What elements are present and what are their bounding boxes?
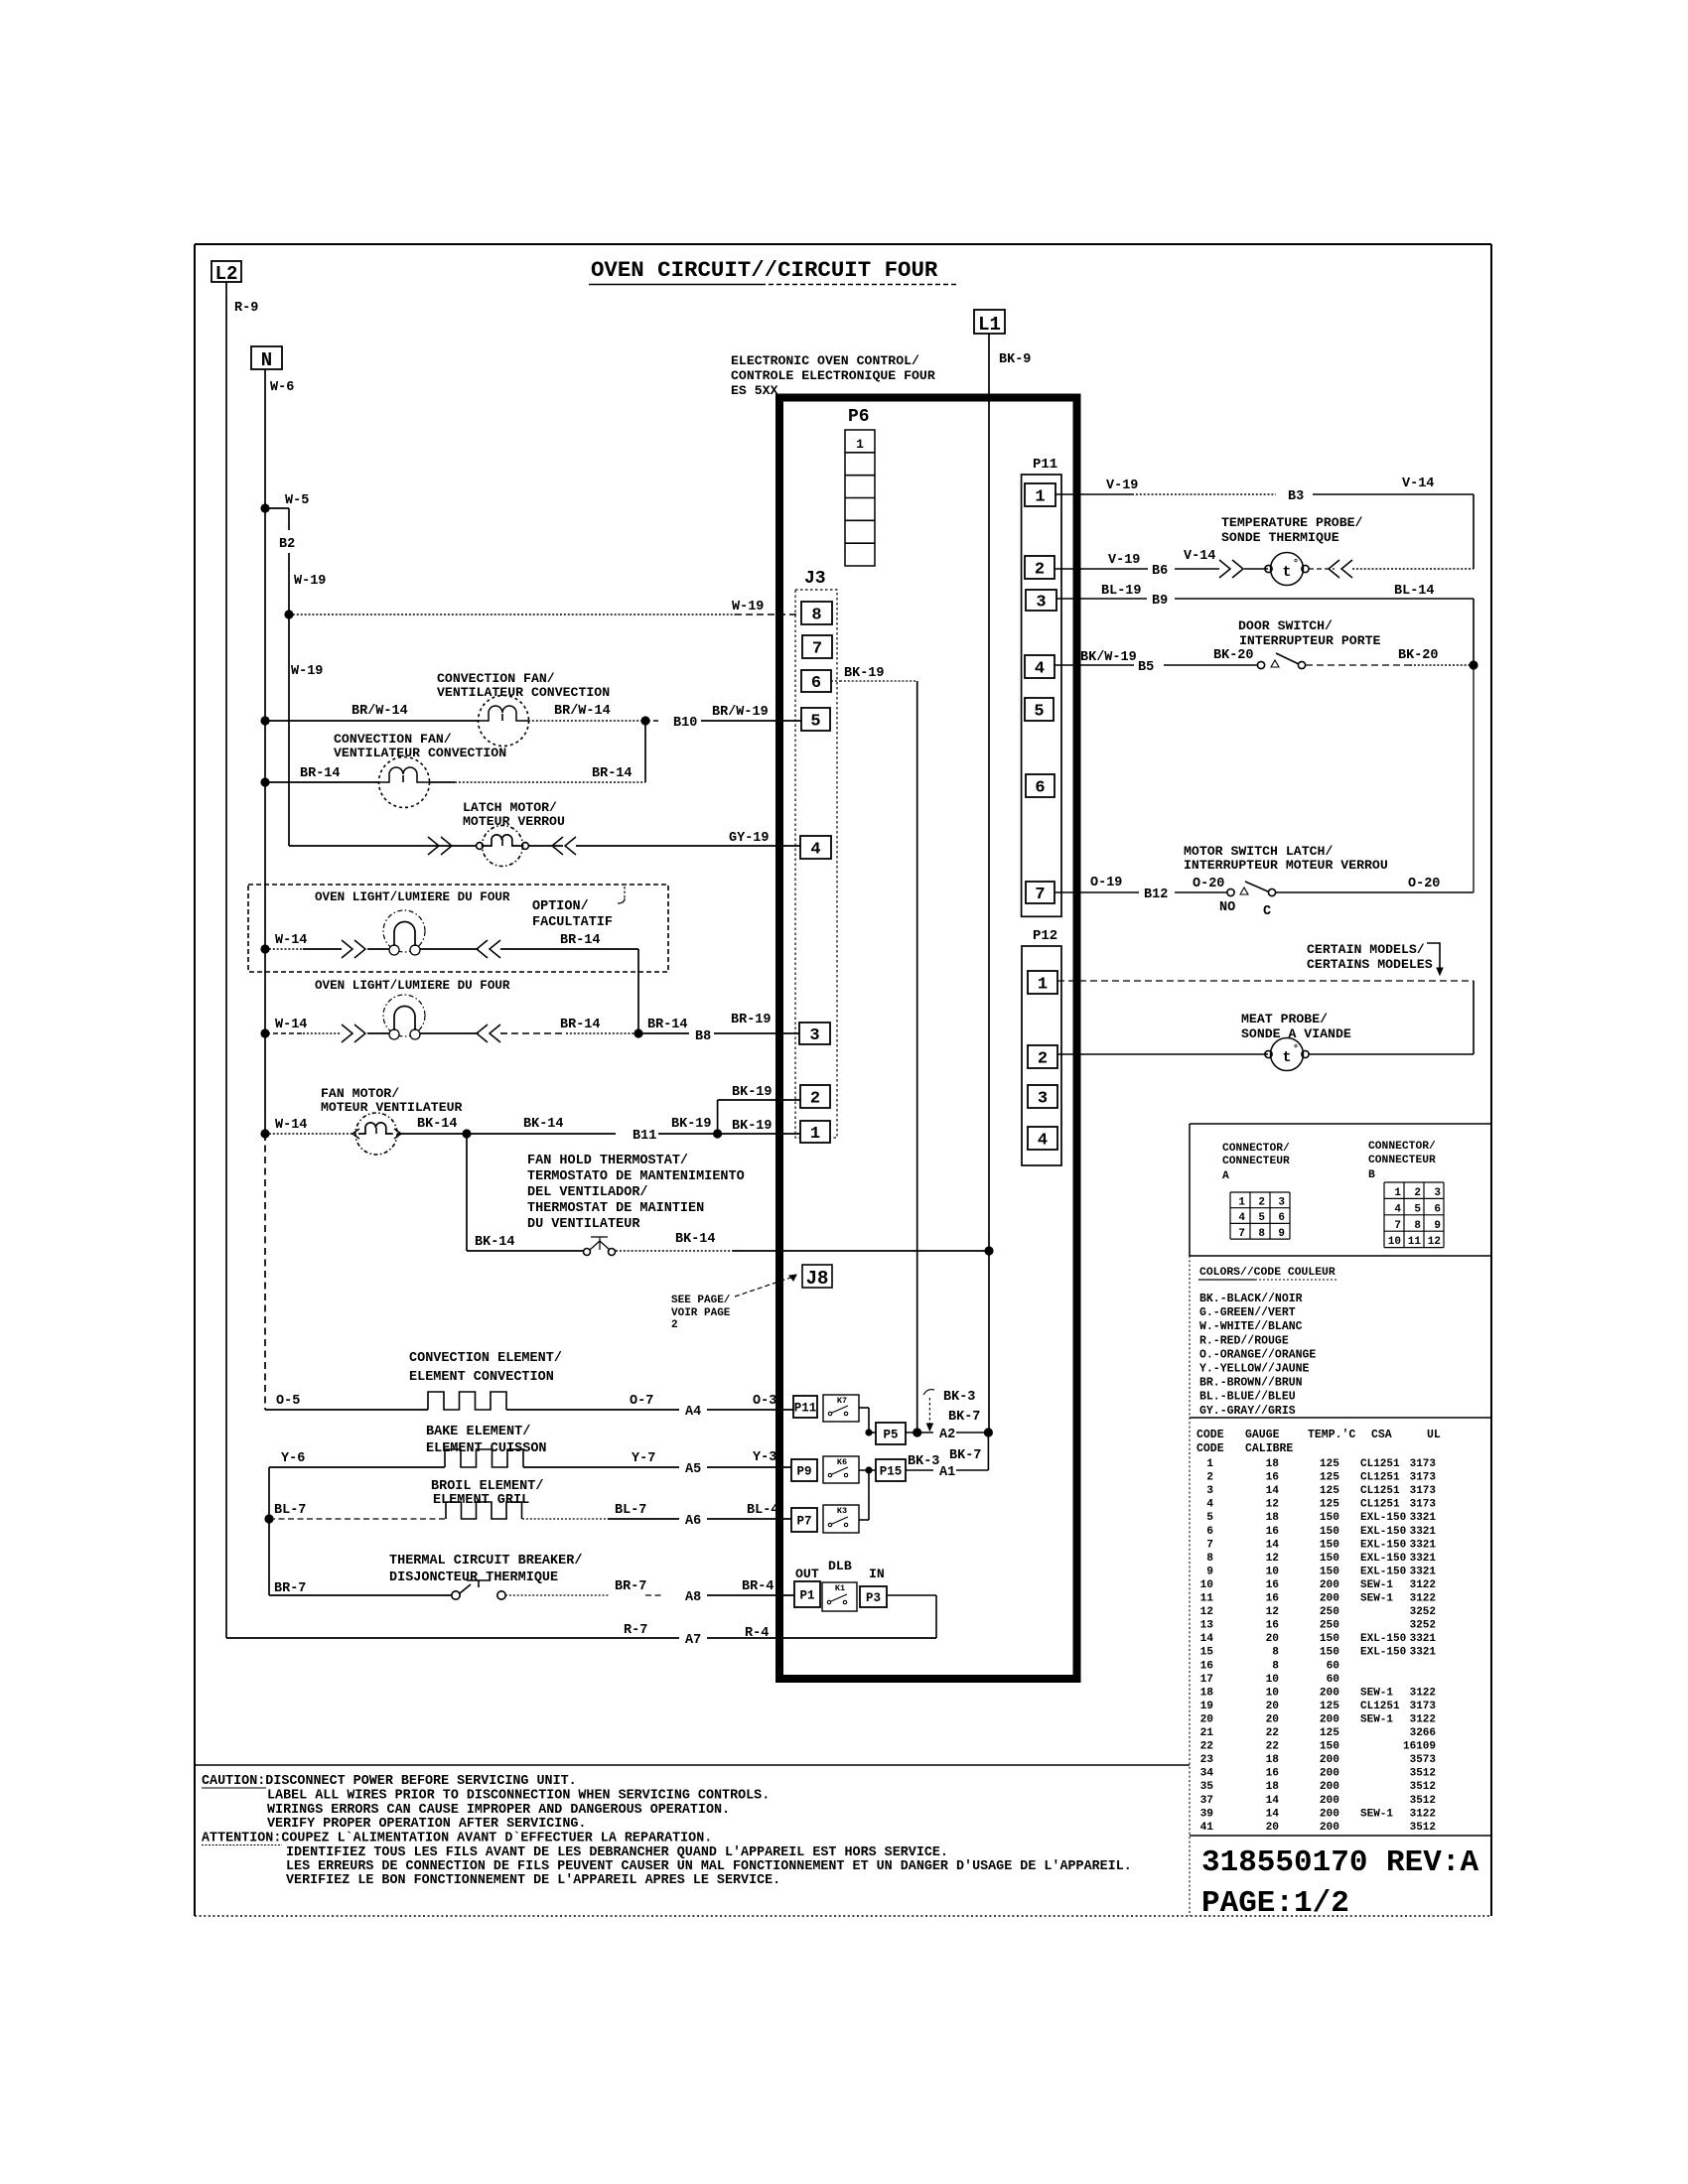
svg-text:A2: A2: [939, 1428, 955, 1442]
svg-text:R-9: R-9: [234, 301, 258, 316]
node P15 input junction: [865, 1466, 872, 1473]
svg-text:CODE: CODE: [1196, 1429, 1224, 1441]
svg-text:MEAT PROBE/: MEAT PROBE/: [1241, 1012, 1328, 1026]
svg-text:EXL-150: EXL-150: [1360, 1512, 1406, 1524]
probe temperature sensor: [1265, 565, 1272, 572]
svg-text:CALIBRE: CALIBRE: [1245, 1442, 1293, 1455]
wire P5 output to A2: [906, 1432, 933, 1433]
svg-text:L2: L2: [215, 263, 238, 285]
svg-text:EXL-150: EXL-150: [1360, 1647, 1406, 1659]
svg-text:Y-3: Y-3: [753, 1450, 776, 1465]
svg-text:250: 250: [1320, 1620, 1339, 1632]
connector chevrons latch left: [428, 837, 452, 855]
connector P11 pin 6: [1026, 774, 1055, 797]
svg-text:R-7: R-7: [624, 1623, 647, 1638]
wire broil row left: [269, 1518, 446, 1520]
wire BL-7 riser to BR-7: [268, 1519, 270, 1595]
svg-text:3: 3: [1278, 1197, 1285, 1209]
svg-text:OVEN LIGHT/LUMIERE DU FOUR: OVEN LIGHT/LUMIERE DU FOUR: [315, 890, 510, 904]
relay K7: [823, 1395, 859, 1422]
svg-text:°: °: [1293, 558, 1299, 570]
node P5 input junction: [865, 1429, 872, 1435]
wire conv fan 2 to B10 riser: [429, 781, 455, 783]
svg-text:125: 125: [1320, 1727, 1339, 1739]
svg-text:ELEMENT CONVECTION: ELEMENT CONVECTION: [409, 1370, 554, 1385]
title underline: [589, 284, 761, 286]
svg-text:MOTEUR VERROU: MOTEUR VERROU: [463, 814, 565, 829]
wire meat probe right: [1309, 1053, 1474, 1055]
svg-text:SEW-1: SEW-1: [1360, 1593, 1393, 1605]
svg-text:14: 14: [1266, 1795, 1280, 1807]
svg-text:P15: P15: [880, 1465, 903, 1479]
svg-text:BK-19: BK-19: [844, 666, 885, 681]
svg-text:K3: K3: [837, 1506, 847, 1516]
svg-text:BAKE ELEMENT/: BAKE ELEMENT/: [426, 1425, 530, 1439]
svg-text:1: 1: [810, 1125, 820, 1144]
wire L2 to A7 row: [226, 1637, 679, 1639]
wire P11 pin3 B9: [1056, 598, 1147, 600]
svg-text:16: 16: [1266, 1526, 1280, 1538]
svg-text:W-19: W-19: [294, 574, 326, 589]
svg-text:BR-19: BR-19: [731, 1013, 772, 1027]
wire element to A4: [506, 1409, 679, 1411]
connector P11 pin 4: [1025, 655, 1055, 678]
svg-text:DLB: DLB: [828, 1559, 852, 1573]
terminal P9: [791, 1459, 817, 1481]
svg-text:A8: A8: [685, 1590, 701, 1605]
svg-text:BK-9: BK-9: [999, 352, 1031, 367]
wire door switch to junction: [1306, 664, 1410, 666]
svg-text:7: 7: [1394, 1220, 1401, 1232]
svg-text:7: 7: [812, 640, 822, 659]
wire B10 to J3 pin 5: [701, 720, 801, 722]
svg-text:20: 20: [1266, 1713, 1280, 1725]
svg-text:3122: 3122: [1410, 1579, 1436, 1591]
svg-text:9: 9: [1278, 1228, 1285, 1240]
svg-text:3321: 3321: [1410, 1566, 1437, 1577]
svg-text:3: 3: [1036, 594, 1046, 613]
wire B2/W-19 rail down: [288, 553, 290, 846]
wire to J3 pin 1: [718, 1133, 800, 1135]
svg-text:200: 200: [1320, 1687, 1339, 1699]
connector info box: [1190, 1123, 1490, 1125]
svg-text:5: 5: [1034, 703, 1044, 722]
svg-text:EXL-150: EXL-150: [1360, 1633, 1406, 1645]
page border frame: [195, 243, 1491, 245]
wire latch motor row: [289, 845, 477, 847]
svg-text:ES 5XX: ES 5XX: [731, 383, 778, 398]
connector P11 pin 3: [1026, 590, 1056, 611]
svg-text:200: 200: [1320, 1781, 1339, 1793]
connector J3 pin 6: [801, 670, 831, 692]
svg-text:BK-19: BK-19: [732, 1085, 773, 1100]
svg-text:14: 14: [1266, 1539, 1280, 1551]
svg-text:Y-6: Y-6: [281, 1451, 305, 1466]
svg-text:18: 18: [1266, 1781, 1280, 1793]
svg-text:SONDE THERMIQUE: SONDE THERMIQUE: [1221, 530, 1339, 545]
svg-text:BK-14: BK-14: [523, 1117, 564, 1132]
svg-text:2: 2: [810, 1090, 820, 1109]
svg-text:IDENTIFIEZ TOUS LES FILS AVANT: IDENTIFIEZ TOUS LES FILS AVANT DE LES DE…: [286, 1845, 948, 1860]
svg-text:200: 200: [1320, 1754, 1339, 1766]
svg-text:THERMOSTAT DE MAINTIEN: THERMOSTAT DE MAINTIEN: [527, 1201, 704, 1216]
node N junction conv fan 2: [260, 777, 269, 786]
node W-5 junction: [260, 503, 269, 512]
wire N rail elbow to convection element row: [265, 1409, 428, 1411]
node fan hold junction: [462, 1129, 471, 1138]
svg-text:22: 22: [1266, 1727, 1280, 1739]
svg-text:K6: K6: [837, 1457, 847, 1467]
svg-text:VERIFY PROPER OPERATION AFTER: VERIFY PROPER OPERATION AFTER SERVICING.: [267, 1817, 586, 1832]
svg-text:K1: K1: [835, 1583, 845, 1593]
wire oven light 2 right: [420, 1032, 479, 1034]
svg-text:DOOR SWITCH/: DOOR SWITCH/: [1238, 618, 1333, 633]
svg-text:V-14: V-14: [1402, 477, 1434, 491]
probe meat sensor: [1265, 1050, 1272, 1057]
svg-text:EXL-150: EXL-150: [1360, 1526, 1406, 1538]
svg-text:BL-14: BL-14: [1394, 584, 1435, 599]
svg-text:B3: B3: [1288, 489, 1304, 504]
svg-text:W-5: W-5: [285, 493, 309, 508]
svg-text:BK-20: BK-20: [1398, 648, 1439, 663]
svg-text:18: 18: [1200, 1687, 1214, 1699]
svg-text:BR-14: BR-14: [592, 766, 633, 781]
svg-text:3321: 3321: [1410, 1512, 1437, 1524]
svg-text:V-19: V-19: [1106, 478, 1138, 493]
svg-text:4: 4: [1035, 660, 1045, 679]
svg-text:BR-14: BR-14: [560, 933, 601, 948]
svg-text:K7: K7: [837, 1396, 847, 1406]
svg-text:°: °: [1293, 1043, 1299, 1055]
wire P12 pin2 to meat probe: [1057, 1053, 1268, 1055]
svg-text:O-20: O-20: [1408, 877, 1440, 891]
svg-text:9: 9: [1434, 1220, 1441, 1232]
svg-text:PAGE:1/2: PAGE:1/2: [1201, 1886, 1349, 1921]
heater bake element: [445, 1449, 523, 1467]
svg-text:12: 12: [1266, 1499, 1280, 1511]
svg-text:20: 20: [1266, 1633, 1280, 1645]
connector chevrons light2 right: [477, 1024, 500, 1042]
svg-text:3122: 3122: [1410, 1593, 1436, 1605]
svg-text:1: 1: [1206, 1458, 1213, 1470]
motor convection fan 1: [479, 696, 529, 747]
svg-text:CODE: CODE: [1196, 1442, 1224, 1455]
svg-text:3512: 3512: [1410, 1768, 1436, 1780]
svg-text:5: 5: [1258, 1212, 1265, 1224]
node A2 L1 junction: [984, 1428, 993, 1436]
svg-text:VERIFIEZ LE BON FONCTIONNEMENT: VERIFIEZ LE BON FONCTIONNEMENT DE L'APPA…: [286, 1873, 780, 1888]
svg-text:OVEN LIGHT/LUMIERE DU FOUR: OVEN LIGHT/LUMIERE DU FOUR: [315, 979, 510, 993]
colors section: [1189, 1256, 1191, 1916]
svg-text:18: 18: [1266, 1754, 1280, 1766]
wire oven light 2 left: [265, 1032, 303, 1034]
bracket certain models: [1427, 943, 1440, 970]
wire P15 output to A1: [906, 1469, 933, 1471]
svg-text:200: 200: [1320, 1593, 1339, 1605]
svg-text:R-4: R-4: [745, 1626, 769, 1641]
svg-text:LES ERREURS DE CONNECTION DE F: LES ERREURS DE CONNECTION DE FILS PEUVEN…: [286, 1859, 1132, 1874]
svg-text:200: 200: [1320, 1579, 1339, 1591]
svg-text:CONVECTION FAN/: CONVECTION FAN/: [437, 671, 555, 686]
connector J3 pin 8: [801, 602, 832, 624]
svg-text:16: 16: [1266, 1768, 1280, 1780]
svg-text:1: 1: [1035, 488, 1045, 507]
svg-text:BR/W-19: BR/W-19: [712, 705, 769, 720]
svg-text:DISJONCTEUR THERMIQUE: DISJONCTEUR THERMIQUE: [389, 1570, 558, 1585]
lamp oven light 2: [383, 995, 425, 1036]
svg-text:3321: 3321: [1410, 1633, 1437, 1645]
wire B8 to J3 pin 3: [714, 1032, 799, 1034]
svg-text:SEE PAGE/: SEE PAGE/: [671, 1295, 731, 1306]
svg-text:200: 200: [1320, 1713, 1339, 1725]
svg-text:BR/W-14: BR/W-14: [352, 704, 408, 719]
svg-text:J3: J3: [804, 569, 826, 589]
heater convection element: [428, 1392, 506, 1410]
svg-text:BL.-BLUE//BLEU: BL.-BLUE//BLEU: [1199, 1391, 1296, 1404]
svg-text:SEW-1: SEW-1: [1360, 1713, 1393, 1725]
svg-text:8: 8: [811, 607, 821, 625]
svg-text:3252: 3252: [1410, 1606, 1436, 1618]
svg-text:P5: P5: [883, 1429, 898, 1442]
svg-text:2: 2: [1035, 561, 1045, 580]
label BK-3 hook at A2: [923, 1390, 934, 1395]
wire latch switch right: [1276, 891, 1474, 893]
svg-text:TEMP.'C: TEMP.'C: [1308, 1429, 1355, 1441]
wire fan motor to B11: [397, 1133, 467, 1135]
terminal P5: [876, 1423, 906, 1444]
svg-text:3122: 3122: [1410, 1713, 1436, 1725]
wire conv fan 1 to B10: [528, 720, 643, 722]
svg-text:OVEN CIRCUIT//CIRCUIT FOUR: OVEN CIRCUIT//CIRCUIT FOUR: [591, 257, 938, 283]
svg-text:B: B: [1368, 1169, 1375, 1181]
svg-text:125: 125: [1320, 1472, 1339, 1484]
svg-text:A1: A1: [939, 1465, 955, 1480]
svg-text:A7: A7: [685, 1633, 701, 1648]
motor convection fan 2: [379, 757, 430, 808]
svg-text:INTERRUPTEUR MOTEUR VERROU: INTERRUPTEUR MOTEUR VERROU: [1184, 858, 1388, 873]
svg-text:16: 16: [1200, 1660, 1214, 1672]
optional oven light dashed group box: [248, 885, 668, 972]
svg-text:BR-14: BR-14: [560, 1018, 601, 1032]
svg-text:Y.-YELLOW//JAUNE: Y.-YELLOW//JAUNE: [1199, 1363, 1310, 1376]
svg-text:BK-19: BK-19: [732, 1119, 773, 1134]
relay K3: [823, 1505, 859, 1533]
svg-text:2: 2: [1038, 1050, 1048, 1069]
svg-text:LABEL ALL WIRES PRIOR TO DISCO: LABEL ALL WIRES PRIOR TO DISCONNECTION W…: [267, 1789, 770, 1804]
svg-text:34: 34: [1200, 1768, 1214, 1780]
svg-text:5: 5: [1414, 1203, 1421, 1215]
node N junction oven light 2: [260, 1028, 269, 1037]
svg-text:15: 15: [1200, 1647, 1214, 1659]
svg-text:P12: P12: [1033, 928, 1057, 944]
svg-text:200: 200: [1320, 1808, 1339, 1820]
svg-text:4: 4: [810, 841, 820, 860]
svg-text:R.-RED//ROUGE: R.-RED//ROUGE: [1199, 1334, 1289, 1347]
svg-text:10: 10: [1266, 1674, 1280, 1686]
svg-text:BK-3: BK-3: [943, 1390, 975, 1405]
svg-text:A5: A5: [685, 1462, 701, 1477]
svg-text:3173: 3173: [1410, 1701, 1437, 1712]
svg-text:3321: 3321: [1410, 1539, 1437, 1551]
svg-text:C: C: [1263, 904, 1271, 919]
svg-text:GY-19: GY-19: [729, 831, 770, 846]
svg-text:12: 12: [1200, 1606, 1214, 1618]
svg-text:J8: J8: [806, 1268, 829, 1290]
electronic oven control thick border box: [779, 398, 1077, 1680]
svg-text:14: 14: [1200, 1633, 1214, 1645]
connector chevrons light1 left: [342, 940, 365, 958]
connector J3 pin 2: [800, 1085, 830, 1108]
wire split up to J3 pin 2: [717, 1100, 719, 1134]
svg-text:125: 125: [1320, 1701, 1339, 1712]
svg-text:20: 20: [1200, 1713, 1214, 1725]
node B8 junction: [633, 1028, 642, 1037]
node N junction fan motor: [260, 1129, 269, 1138]
svg-text:SONDE A VIANDE: SONDE A VIANDE: [1241, 1026, 1351, 1041]
node W-19 branch junction: [284, 610, 293, 618]
wire to convection fan 2: [265, 781, 379, 783]
svg-text:12: 12: [1266, 1606, 1280, 1618]
svg-text:P7: P7: [796, 1515, 811, 1529]
wire oven light 1 left: [265, 948, 303, 950]
svg-text:GY.-GRAY//GRIS: GY.-GRAY//GRIS: [1199, 1405, 1296, 1418]
svg-text:BR-7: BR-7: [615, 1579, 646, 1594]
svg-text:14: 14: [1266, 1808, 1280, 1820]
wire W-19 to J3 pin 8: [289, 614, 735, 615]
wire P11 pin4 B5: [1055, 664, 1134, 666]
connector P12 outline: [1022, 946, 1061, 1165]
svg-text:150: 150: [1320, 1512, 1339, 1524]
wire W-5 branch: [265, 507, 289, 509]
svg-text:B5: B5: [1138, 660, 1154, 675]
connector P6 strip: [845, 430, 875, 566]
svg-text:CONNECTEUR: CONNECTEUR: [1368, 1155, 1436, 1166]
svg-text:6: 6: [811, 674, 821, 693]
motor fan: [355, 1113, 397, 1155]
svg-text:ATTENTION:COUPEZ L`ALIMENTATIO: ATTENTION:COUPEZ L`ALIMENTATION AVANT D`…: [202, 1832, 712, 1846]
svg-text:CONVECTION ELEMENT/: CONVECTION ELEMENT/: [409, 1351, 562, 1366]
svg-text:2: 2: [671, 1319, 678, 1331]
node door switch junction: [1469, 660, 1477, 669]
svg-text:BK-14: BK-14: [417, 1117, 458, 1132]
svg-text:P9: P9: [796, 1465, 811, 1479]
svg-text:3512: 3512: [1410, 1781, 1436, 1793]
svg-text:DEL VENTILADOR/: DEL VENTILADOR/: [527, 1185, 648, 1200]
svg-text:O-19: O-19: [1090, 876, 1122, 890]
svg-text:200: 200: [1320, 1768, 1339, 1780]
svg-text:EXL-150: EXL-150: [1360, 1553, 1406, 1565]
svg-text:TEMPERATURE PROBE/: TEMPERATURE PROBE/: [1221, 515, 1363, 530]
connector J3 dotted outline: [795, 590, 837, 1138]
terminal P15: [876, 1459, 906, 1481]
wire oven light 1 right: [420, 948, 479, 950]
node L1: [974, 310, 1005, 334]
svg-text:150: 150: [1320, 1526, 1339, 1538]
svg-text:1: 1: [1038, 976, 1048, 995]
wire breaker row left: [269, 1594, 452, 1596]
svg-text:150: 150: [1320, 1553, 1339, 1565]
svg-text:3573: 3573: [1410, 1754, 1437, 1766]
marker j optional box: [624, 887, 626, 898]
svg-text:3512: 3512: [1410, 1822, 1436, 1834]
svg-text:8: 8: [1414, 1220, 1421, 1232]
svg-text:GAUGE: GAUGE: [1245, 1429, 1280, 1441]
svg-text:SEW-1: SEW-1: [1360, 1687, 1393, 1699]
svg-text:BK-19: BK-19: [671, 1117, 712, 1132]
svg-text:W-14: W-14: [275, 1018, 307, 1032]
svg-text:BL-4: BL-4: [747, 1503, 778, 1518]
svg-text:150: 150: [1320, 1539, 1339, 1551]
svg-text:B10: B10: [673, 716, 697, 731]
svg-text:V-14: V-14: [1184, 549, 1215, 564]
svg-text:7: 7: [1035, 886, 1045, 904]
svg-text:3173: 3173: [1410, 1485, 1437, 1497]
svg-text:CERTAINS MODELES: CERTAINS MODELES: [1307, 957, 1433, 972]
connector P12 pin 2: [1028, 1045, 1057, 1068]
connector J3 pin 3: [799, 1023, 830, 1044]
svg-text:2: 2: [1258, 1197, 1265, 1209]
svg-text:OPTION/: OPTION/: [532, 899, 589, 914]
motor latch: [483, 826, 523, 867]
wire K6 to P15: [859, 1469, 876, 1471]
svg-text:3: 3: [1038, 1090, 1048, 1109]
switch motor latch: [1227, 888, 1234, 895]
connector P12 pin 4: [1028, 1127, 1057, 1150]
svg-text:6: 6: [1278, 1212, 1285, 1224]
wire L2 rail down: [225, 282, 227, 1638]
svg-text:3266: 3266: [1410, 1727, 1436, 1739]
svg-text:3: 3: [1434, 1187, 1441, 1199]
svg-text:CL1251: CL1251: [1360, 1485, 1400, 1497]
svg-text:COLORS//CODE COULEUR: COLORS//CODE COULEUR: [1199, 1267, 1336, 1279]
switch door: [1257, 661, 1264, 668]
svg-text:3173: 3173: [1410, 1499, 1437, 1511]
node N junction oven light 1: [260, 944, 269, 953]
wire P12 pin1 dashed: [1057, 980, 1474, 982]
svg-text:3122: 3122: [1410, 1687, 1436, 1699]
connector P12 pin 1: [1028, 971, 1057, 994]
svg-text:7: 7: [1206, 1539, 1213, 1551]
wire A2 down to A1: [987, 1433, 989, 1470]
wire BK-19 drop from J3 pin6: [831, 680, 840, 682]
svg-text:6: 6: [1206, 1526, 1213, 1538]
svg-text:O-7: O-7: [630, 1394, 653, 1409]
terminal P11: [793, 1396, 817, 1418]
svg-text:SEW-1: SEW-1: [1360, 1808, 1393, 1820]
svg-text:3512: 3512: [1410, 1795, 1436, 1807]
svg-text:B2: B2: [279, 537, 295, 552]
svg-text:W-19: W-19: [291, 664, 323, 679]
svg-text:B9: B9: [1152, 594, 1168, 609]
svg-text:16: 16: [1266, 1472, 1280, 1484]
svg-text:L1: L1: [978, 314, 1001, 336]
svg-text:BL-19: BL-19: [1101, 584, 1142, 599]
svg-text:BL-7: BL-7: [615, 1503, 646, 1518]
svg-text:A: A: [1222, 1170, 1229, 1182]
svg-text:125: 125: [1320, 1499, 1339, 1511]
svg-text:3: 3: [1206, 1485, 1213, 1497]
svg-text:21: 21: [1200, 1727, 1214, 1739]
svg-text:MOTOR SWITCH LATCH/: MOTOR SWITCH LATCH/: [1184, 844, 1333, 859]
svg-text:39: 39: [1200, 1808, 1214, 1820]
connector P11 pin 2: [1025, 556, 1055, 579]
svg-text:CL1251: CL1251: [1360, 1499, 1400, 1511]
svg-text:8: 8: [1258, 1228, 1265, 1240]
wire latch motor to J3 pin 4: [528, 845, 563, 847]
svg-text:10: 10: [1200, 1579, 1214, 1591]
switch fan hold thermostat: [584, 1249, 591, 1256]
svg-text:200: 200: [1320, 1795, 1339, 1807]
